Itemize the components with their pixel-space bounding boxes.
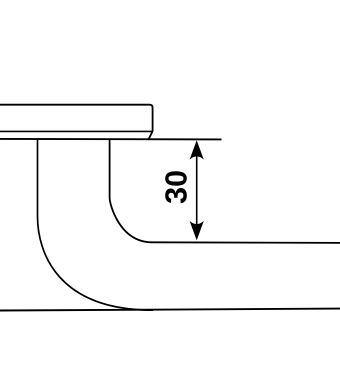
lever grip bottom line [0,309,340,311]
dimension arrow shaft [196,142,198,239]
door face line / dimension reference [0,138,222,141]
lever neck right outline with small curve into grip top [110,140,340,243]
rose plate bottom edge [0,130,152,132]
dimension text 30 : digit 0 [165,171,187,186]
dimension arrowhead top [190,140,204,159]
dimension text 30 : digit 3 [165,188,187,203]
lever neck left outline with large curve into grip bottom [38,140,154,311]
dimension arrowhead bottom [190,221,204,241]
rose plate R (side view outline) [0,105,153,139]
